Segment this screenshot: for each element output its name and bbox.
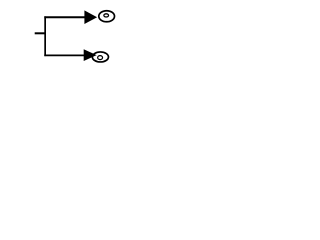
node N2 outer ellipse	[92, 52, 108, 62]
arrowhead A2	[84, 49, 97, 61]
node N2 inner oval	[98, 56, 103, 60]
node N1 outer ellipse	[99, 11, 115, 22]
wire vertical branch	[44, 16, 46, 56]
arrowhead A1	[84, 10, 97, 24]
node N1 inner oval	[104, 14, 109, 17]
wire input stub	[35, 32, 46, 34]
wire top branch	[44, 16, 84, 18]
wire bottom branch	[44, 54, 84, 56]
